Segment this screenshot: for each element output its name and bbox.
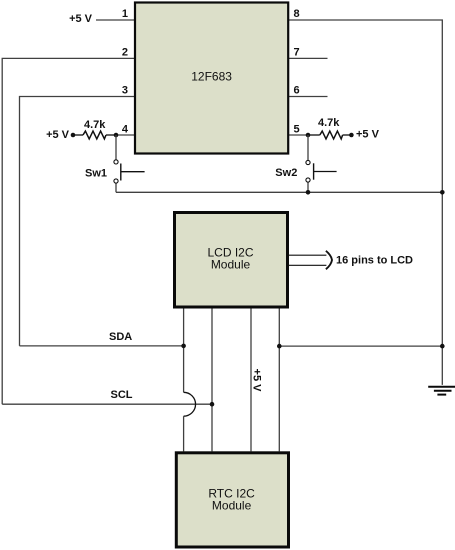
svg-text:12F683: 12F683 bbox=[191, 70, 232, 84]
arrow 16 pins to LCD bbox=[288, 251, 332, 269]
resistor R2 4.7k bbox=[320, 131, 343, 139]
node dot pin4 junction bbox=[114, 133, 119, 138]
wire Sw2 upper bbox=[307, 135, 309, 160]
wire R1 left lead bbox=[73, 134, 83, 136]
svg-text:+5 V: +5 V bbox=[46, 129, 70, 141]
node dot +5V left bbox=[71, 133, 76, 138]
svg-text:+5 V: +5 V bbox=[356, 129, 380, 141]
svg-text:6: 6 bbox=[294, 85, 300, 97]
wire LCD pin D vertical bbox=[278, 309, 280, 452]
wire switch bottom rail bbox=[116, 191, 442, 193]
svg-text:2: 2 bbox=[122, 47, 128, 59]
wire Sw1 lower bbox=[115, 183, 117, 192]
node A SDA junction bbox=[181, 344, 186, 349]
wire pin7 stub bbox=[289, 57, 328, 59]
wire pin3 to SDA net bbox=[20, 97, 135, 346]
resistor R1 4.7k bbox=[83, 131, 106, 139]
wire pin2 to SCL net bbox=[2, 58, 134, 404]
wire pin4 bbox=[116, 134, 134, 136]
wire R2 left lead bbox=[308, 134, 320, 136]
ground bbox=[428, 387, 455, 395]
module LCD I2C bbox=[175, 213, 288, 308]
node dot Sw2 bottom rail bbox=[306, 190, 311, 195]
svg-text:16 pins to LCD: 16 pins to LCD bbox=[336, 255, 413, 267]
wire Sw2 lower bbox=[307, 182, 309, 192]
node dot pin5 junction bbox=[306, 133, 311, 138]
switch Sw1 bbox=[114, 160, 145, 183]
wire R1 right lead bbox=[106, 134, 116, 136]
node dot ground rail junction bbox=[440, 344, 445, 349]
svg-text:Module: Module bbox=[211, 257, 251, 271]
wire SDA horizontal bbox=[20, 345, 184, 347]
wire R2 right lead bbox=[343, 134, 352, 136]
svg-text:Sw1: Sw1 bbox=[85, 168, 107, 180]
svg-text:4.7k: 4.7k bbox=[84, 119, 106, 131]
wire SCL horizontal bbox=[2, 403, 212, 405]
svg-text:4.7k: 4.7k bbox=[318, 117, 340, 129]
svg-text:SCL: SCL bbox=[111, 389, 133, 401]
svg-text:SDA: SDA bbox=[109, 331, 132, 343]
IC U1 12F683 bbox=[135, 3, 288, 154]
switch Sw2 bbox=[306, 160, 337, 182]
svg-text:+5 V: +5 V bbox=[69, 13, 93, 25]
svg-text:5: 5 bbox=[294, 123, 300, 135]
svg-text:+5 V: +5 V bbox=[251, 369, 263, 393]
wire LCD pin A vertical with hop bbox=[184, 309, 196, 452]
wire pin1 to +5V bbox=[96, 19, 134, 21]
node dot rail meets ground line bbox=[440, 190, 445, 195]
node B SCL junction bbox=[210, 402, 215, 407]
wire LCD pin C vertical bbox=[250, 309, 252, 452]
wire pin8 to ground rail bbox=[289, 20, 442, 385]
wire pinD to ground rail bbox=[279, 345, 442, 347]
svg-text:4: 4 bbox=[122, 123, 129, 135]
svg-text:Sw2: Sw2 bbox=[275, 167, 297, 179]
svg-text:Module: Module bbox=[212, 499, 252, 513]
svg-text:1: 1 bbox=[122, 8, 128, 20]
svg-text:8: 8 bbox=[294, 8, 300, 20]
node dot +5V right bbox=[349, 133, 354, 138]
node dot pinD junction bbox=[277, 344, 282, 349]
wire LCD pin B vertical bbox=[211, 309, 213, 452]
wire pin6 stub bbox=[289, 96, 328, 98]
module RTC I2C bbox=[176, 453, 288, 547]
svg-text:3: 3 bbox=[122, 85, 128, 97]
svg-text:7: 7 bbox=[294, 47, 300, 59]
wire pin5 bbox=[289, 134, 308, 136]
wire Sw1 upper bbox=[115, 135, 117, 160]
